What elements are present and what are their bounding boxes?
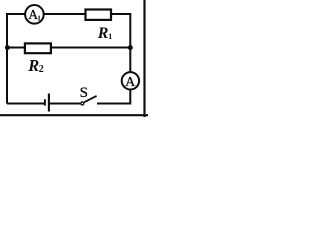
svg-text:A: A bbox=[125, 75, 136, 90]
svg-text:1: 1 bbox=[108, 32, 112, 41]
svg-text:1: 1 bbox=[37, 13, 41, 22]
svg-text:R: R bbox=[27, 56, 39, 75]
svg-text:S: S bbox=[80, 85, 88, 101]
svg-text:2: 2 bbox=[39, 64, 44, 75]
svg-text:R: R bbox=[97, 25, 109, 42]
